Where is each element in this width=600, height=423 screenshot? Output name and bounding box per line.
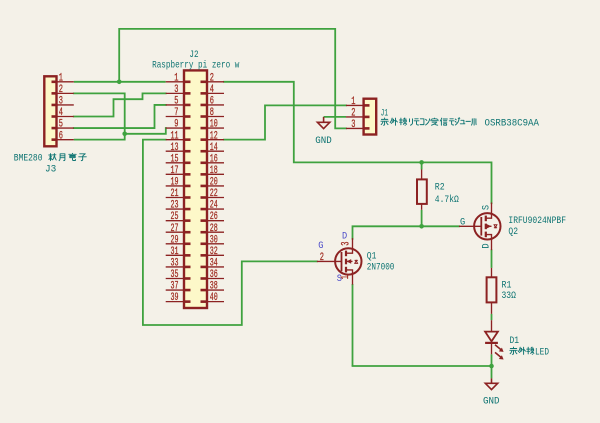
ground symbol bottom [485,378,497,389]
wire SDA: J3 pin4 to J2 pin3 [74,93,166,116]
svg-text:8: 8 [210,107,214,119]
svg-text:38: 38 [210,281,218,293]
svg-text:7: 7 [174,107,178,119]
svg-text:Q2: Q2 [508,226,518,238]
svg-text:20: 20 [210,177,218,189]
svg-text:6: 6 [210,96,214,108]
svg-text:11: 11 [171,130,179,142]
svg-text:15: 15 [171,153,179,165]
svg-text:35: 35 [171,269,179,281]
svg-text:30: 30 [210,234,218,246]
connector J1 body [364,99,377,135]
svg-text:OSRB38C9AA: OSRB38C9AA [485,117,540,129]
svg-text:2: 2 [351,108,355,120]
resistor R2 [417,170,427,210]
svg-text:36: 36 [210,269,218,281]
svg-text:1: 1 [340,275,352,279]
svg-text:D1: D1 [510,335,520,347]
wire R1 to D1 [491,314,493,320]
svg-text:2: 2 [59,84,63,96]
svg-text:3: 3 [351,119,355,131]
svg-text:29: 29 [171,234,179,246]
svg-text:2N7000: 2N7000 [367,261,395,273]
svg-text:6: 6 [59,130,63,142]
wire Q1 source down [352,284,354,366]
wire R2 top tap [421,162,423,169]
wire D1 cathode to GND junction [491,354,493,378]
svg-text:23: 23 [171,200,179,212]
svg-text:J3: J3 [45,164,56,176]
svg-text:10: 10 [210,119,218,131]
wire GND: J3 pin2 down [74,93,125,139]
svg-text:3: 3 [174,84,178,96]
J3 value label BME280 AkizukiDenshi [14,153,86,165]
svg-text:9: 9 [174,119,178,131]
wire R2 bottom to gate line [421,210,423,227]
transistor Q1 [317,239,362,284]
svg-text:S: S [480,205,492,210]
svg-text:19: 19 [171,177,179,189]
svg-text:28: 28 [210,223,218,235]
svg-text:4: 4 [59,107,63,119]
svg-text:37: 37 [171,281,179,293]
svg-text:1: 1 [351,96,355,108]
junction GND net at (124.7,133.8) [122,132,127,137]
junction 5V rail at R2 top [419,160,424,165]
svg-text:2: 2 [210,72,214,84]
LED D1 [485,320,504,359]
svg-text:40: 40 [210,292,218,304]
svg-text:33Ω: 33Ω [502,290,516,302]
svg-text:3: 3 [59,96,63,108]
J2 pin numbers right even [210,72,218,304]
wire Q1 drain to Q2 gate [353,226,460,239]
wire 3V3: J3 pin1 to J2 pin1 [74,81,166,83]
J2 pin numbers left odd [171,72,179,304]
J3 pin numbers 1-6 [59,72,63,142]
svg-text:39: 39 [171,292,179,304]
wire GND: J3 pin6 to vertical [74,139,125,141]
junction gate line at R2 bottom [419,224,424,229]
svg-text:G: G [318,240,323,252]
wire GPIO17: J2 pin11 to Q1 gate [143,140,317,325]
svg-text:21: 21 [171,188,179,200]
svg-text:16: 16 [210,153,218,165]
svg-text:24: 24 [210,200,218,212]
resistor R1 [487,268,497,314]
svg-text:17: 17 [171,165,179,177]
svg-text:14: 14 [210,142,218,154]
svg-text:34: 34 [210,258,218,270]
connector J2 pins right 2..40 [201,82,225,302]
svg-text:5: 5 [59,119,63,131]
svg-text:D: D [480,243,492,248]
svg-text:G: G [460,216,465,228]
svg-text:5: 5 [174,96,178,108]
wire GPIO18: J2 pin12 to J1 pin1 [224,105,346,139]
svg-text:13: 13 [171,142,179,154]
connector J2 pins left 1..39 [166,82,191,302]
svg-text:31: 31 [171,246,179,258]
svg-text:4: 4 [210,84,214,96]
wire GND: junction to J2 pin9 [125,128,166,134]
wire 5V: J2 pin2 to rail and Q2 source [224,82,492,203]
svg-text:18: 18 [210,165,218,177]
svg-text:1: 1 [174,72,178,84]
svg-text:33: 33 [171,258,179,270]
svg-text:22: 22 [210,188,218,200]
svg-text:R2: R2 [435,182,445,194]
svg-text:D: D [342,231,347,243]
ground symbol at J1 pin2 [317,117,329,129]
transistor Q2 [459,203,500,249]
svg-text:S: S [337,273,342,285]
junction bottom GND [489,364,494,369]
svg-text:LED: LED [535,346,549,358]
svg-text:GND: GND [483,396,500,408]
wire 3V3 branch: junction up over top to J1 pin3 [119,29,346,128]
svg-text:25: 25 [171,211,179,223]
wire Q2 drain to R1 [491,249,493,268]
connector J3 body [44,76,56,146]
svg-text:Raspberry pi zero w: Raspberry pi zero w [152,60,240,72]
wire SCL: J3 pin5 to J2 pin5 [74,105,166,128]
D1 value infrared LED [510,346,549,358]
svg-text:GND: GND [315,135,332,147]
svg-text:2: 2 [320,252,324,264]
svg-text:4.7kΩ: 4.7kΩ [435,194,459,206]
connector J2 body [184,70,207,308]
connector J3 pins 1-6 [52,82,74,140]
svg-text:12: 12 [210,130,218,142]
svg-text:1: 1 [59,72,63,84]
junction at J3.1/J2.1 wire [117,80,122,85]
svg-text:BME280: BME280 [14,153,43,165]
wire J1 pin2 to GND symbol [324,116,346,118]
svg-text:26: 26 [210,211,218,223]
svg-text:27: 27 [171,223,179,235]
J1 pin numbers [351,96,355,131]
connector J1 pins 1-3 [346,105,370,128]
svg-text:32: 32 [210,246,218,258]
wire bottom GND horizontal [353,365,492,367]
J1 value label IR receiver module OSRB38C9AA [381,117,540,129]
